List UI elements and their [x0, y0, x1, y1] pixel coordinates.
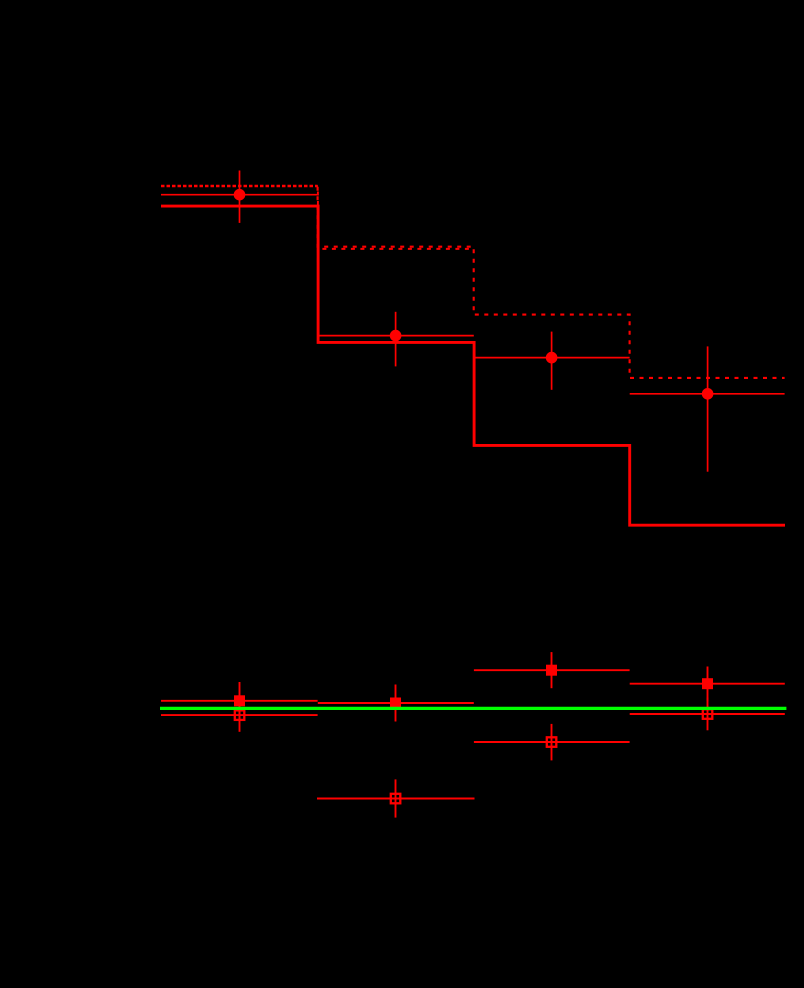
ratio filled square point 1 with error bars (lower panel)	[161, 682, 318, 720]
dashed histogram B bin1 row	[161, 185, 318, 187]
ratio filled square point 3 with error bars	[474, 652, 630, 688]
dashed histogram A bin1 row (dense dash, two coincident dashed curves)	[161, 185, 318, 187]
ratio filled square point 4 with error bars	[630, 667, 785, 702]
ratio open square point 2 with error bars	[317, 779, 475, 817]
data point 3 marker	[546, 352, 558, 364]
dashed histogram B bin2 row (second dashed staircase, slightly lower)	[318, 248, 474, 250]
data point 2 error bars	[318, 312, 474, 367]
data point 4 error bars	[630, 346, 785, 471]
ratio open square point 3 with error bars	[474, 724, 630, 761]
ratio open square point 1 with error bars	[161, 698, 318, 732]
ratio filled square point 2 with error bars	[318, 685, 474, 722]
data point 1 marker	[234, 189, 246, 201]
data point 2 marker	[390, 330, 402, 342]
data point 1 error bars (upper panel)	[161, 171, 318, 223]
data point 3 error bars	[474, 332, 630, 390]
data point 4 marker	[702, 388, 714, 400]
dashed histogram B bin2 step edge (vertical dashes at first bin edge)	[317, 187, 319, 266]
ratio open square point 4 with error bars	[630, 698, 785, 731]
dashed histogram A bins 2-4 (staircase)	[318, 187, 785, 378]
thick solid histogram (upper panel, red staircase)	[161, 206, 785, 525]
green reference line at ratio = 1 (lower panel)	[160, 707, 786, 710]
